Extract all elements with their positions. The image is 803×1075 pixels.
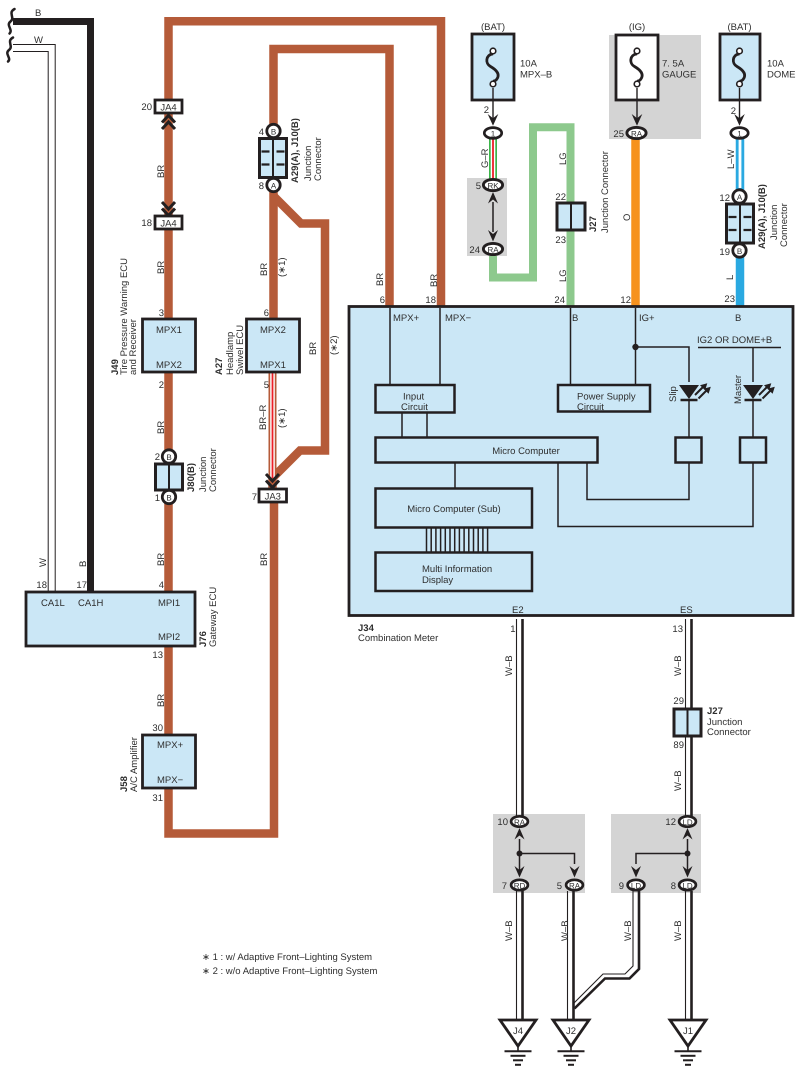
svg-text:JA3: JA3 [265,492,281,503]
svg-text:7: 7 [252,492,257,503]
junction connector A29 left: circle A pin 8 [267,178,280,191]
junction connector A29 right: circle B pin 19 [733,244,746,257]
arrow down into LD9 [631,866,641,878]
wire L: DOME circle1 down through A29 to J34 pin23 [736,139,745,309]
wire MPX- pin18 to Input Circuit [439,308,441,385]
arrow into RA25 [632,114,643,126]
svg-text:7: 7 [502,881,507,892]
ECU J76 Gateway box [26,592,195,646]
svg-text:8: 8 [259,181,264,192]
ECU J34 Combination Meter box [349,307,793,616]
ground J2 [553,1020,589,1065]
wire W-B: J34 ES pin13 down to J27 [685,619,687,712]
svg-text:W: W [38,558,49,567]
wire W squiggle end [7,38,13,62]
gray highlight box around IG fuse [609,35,701,139]
svg-text:Input: Input [403,392,424,403]
wire MPX+ pin6 to Input Circuit [389,308,391,385]
svg-text:Connector: Connector [313,137,324,181]
svg-text:12: 12 [620,295,631,306]
wire W white outlined trunk (top-left to J76 CA1L) [13,48,52,592]
wire W-B: LD9 down with jog joining J2 ground wire [574,891,634,1004]
svg-text:BR: BR [156,694,167,707]
wire B black trunk (top-left to J76 CA1H) [13,22,91,593]
svg-text:(BAT): (BAT) [481,22,505,33]
svg-text:2: 2 [484,105,489,116]
wire LD12 to LD8 [687,839,689,872]
connector circle LD pin 8 [679,880,696,890]
svg-text:Display: Display [422,575,453,586]
svg-text:W–B: W–B [673,655,684,676]
arrow down into RD7 [515,866,525,878]
svg-text:A29(A), J10(B): A29(A), J10(B) [290,118,301,183]
svg-text:10A: 10A [520,59,538,70]
svg-text:9: 9 [619,881,624,892]
svg-text:Micro Computer: Micro Computer [492,446,560,457]
wire BR-R (*1) A27 pin5 to JA3 [269,373,277,478]
svg-text:Multi Information: Multi Information [422,564,492,575]
svg-text:CA1L: CA1L [41,598,65,609]
connector circle 1 (MPX-B) [484,128,501,139]
box resistor below Slip LED [676,438,702,463]
wire G-R: fuse MPX-B circle1 down to RK [489,139,497,182]
svg-text:(IG): (IG) [629,22,645,33]
svg-text:Micro Computer (Sub): Micro Computer (Sub) [407,504,500,515]
bus hatch between Sub and Display [427,528,488,553]
wire fuse MPX-B to circle 1 [492,88,494,120]
svg-text:2: 2 [159,380,164,391]
junction connector A29(A) J10(B) right: grid box [727,204,754,243]
svg-text:13: 13 [152,650,163,661]
svg-text:10A: 10A [767,59,785,70]
wire W-B: RD7 down to ground J4 [516,891,518,1021]
svg-text:J1: J1 [683,1026,693,1037]
svg-text:IG2 OR DOME+B: IG2 OR DOME+B [697,335,772,346]
gray highlight box bottom-left RA/RD/RA group [493,814,585,893]
svg-text:10: 10 [497,817,508,828]
svg-text:24: 24 [469,245,480,256]
wire BR trunk: J34 pin18 up over top to left column down to J76 MPI1 [169,21,442,592]
wire fuse GAUGE to RA25 [636,88,638,120]
node junction dot [517,851,523,857]
svg-text:J27: J27 [588,216,599,232]
svg-text:31: 31 [152,793,163,804]
LED Slip [679,385,699,399]
wire IG2 OR DOME+B line to Master LED [698,348,781,383]
fuse 7.5A GAUGE [616,22,696,100]
connector circle RK pin 5 [483,179,502,190]
svg-text:MPI1: MPI1 [158,598,180,609]
svg-text:BR: BR [259,553,270,566]
svg-text:B: B [572,313,578,324]
svg-text:A29(A), J10(B): A29(A), J10(B) [757,184,768,249]
svg-text:Connector: Connector [208,448,219,492]
gray highlight box around RK/RA connectors [467,178,507,256]
svg-text:∗ 2 : w/o Adaptive Front–Light: ∗ 2 : w/o Adaptive Front–Lighting System [202,966,377,977]
junction connector J80(B): box [156,464,183,490]
svg-text:LD: LD [682,818,692,827]
svg-text:W–B: W–B [504,920,515,941]
box Power Supply Circuit [558,385,650,412]
svg-text:1: 1 [491,130,496,139]
svg-text:DOME: DOME [767,70,796,81]
connector circle RA pin 10 [511,816,528,826]
svg-text:(∗2): (∗2) [329,335,340,355]
ground J4 [500,1020,536,1065]
wire fuse DOME to circle 1 [739,88,741,120]
svg-text:MPX1: MPX1 [260,360,286,371]
svg-text:MPX+: MPX+ [393,313,420,324]
svg-text:22: 22 [555,192,566,203]
svg-text:MPX+: MPX+ [157,740,184,751]
svg-text:4: 4 [159,580,164,591]
svg-text:Circuit: Circuit [577,402,604,413]
arrow into circle 1 [488,114,499,126]
svg-text:17: 17 [76,580,87,591]
junction JA3 pin 7 [259,489,287,502]
svg-text:19: 19 [719,247,730,258]
svg-text:RD: RD [514,882,526,891]
svg-text:B: B [166,494,171,503]
svg-text:29: 29 [673,696,684,707]
junction connector J80(B): circle B pin 2 [162,450,175,463]
wire B pin24 to Power Supply Circuit [570,308,572,385]
svg-text:GAUGE: GAUGE [662,70,696,81]
arrow up into LD12 [683,828,693,840]
svg-text:30: 30 [152,723,163,734]
svg-text:L: L [725,275,736,280]
svg-text:RA: RA [631,130,643,139]
svg-text:BR–R: BR–R [258,405,269,430]
svg-text:BR: BR [156,165,167,178]
wire IG+ pin12 to Power Supply Circuit [635,308,637,385]
junction connector A29 left: grid box [260,139,287,178]
arrow up into RK [488,192,498,204]
svg-text:BR: BR [308,342,319,355]
wire Micro Computer to Slip resistor [587,463,689,500]
svg-text:BR: BR [156,553,167,566]
svg-text:B: B [35,8,41,19]
wire L-W white stripe segment [739,139,742,188]
junction connector A29(A) J10(B) left: circle B pin 4 [267,124,280,137]
wire dot to RA5 [520,854,575,865]
svg-text:18: 18 [141,218,152,229]
wire B squiggle end [9,9,15,34]
wire Micro Computer to Micro Computer (Sub) [454,463,456,490]
svg-text:25: 25 [613,129,624,140]
svg-text:23: 23 [724,294,735,305]
svg-text:LD: LD [631,882,641,891]
node junction dot [685,851,691,857]
svg-text:A: A [737,193,743,202]
svg-text:LG: LG [558,152,569,165]
svg-text:BR: BR [156,421,167,434]
connector circle RA pin 5 [566,880,583,890]
svg-text:RK: RK [487,182,499,191]
svg-text:B: B [737,247,742,256]
svg-text:Swivel ECU: Swivel ECU [235,325,246,375]
wire Master LED to resistor box [752,401,754,438]
wire Slip LED to resistor box [688,401,690,438]
svg-text:IG+: IG+ [639,313,655,324]
svg-text:(BAT): (BAT) [727,22,751,33]
connector circle RA pin 25 [627,127,646,138]
arrow into circle 1 [734,114,745,126]
svg-text:Connector: Connector [779,203,790,247]
svg-text:13: 13 [672,624,683,635]
svg-text:(∗1): (∗1) [277,408,288,428]
wire W-B: J34 E2 pin1 down to RA10 [516,619,518,816]
fuse 10A DOME [720,22,796,100]
wire RK to RA [492,202,494,232]
svg-text:20: 20 [141,102,152,113]
svg-text:23: 23 [555,235,566,246]
svg-text:12: 12 [719,193,730,204]
svg-text:J2: J2 [566,1026,576,1037]
junction connector A29(A) J10(B) right: circle A pin 12 [733,190,746,203]
svg-text:W–B: W–B [673,770,684,791]
arrow down into RA5 [570,866,580,878]
svg-text:89: 89 [673,740,684,751]
arrow down into LD8 [683,866,693,878]
ECU J58 A/C Amplifier box [143,735,196,788]
svg-text:J4: J4 [513,1026,523,1037]
svg-text:B: B [78,561,89,567]
svg-text:ES: ES [680,605,693,616]
junction JA4 pin 18 [155,216,182,229]
svg-text:5: 5 [476,181,481,192]
svg-text:W: W [34,35,43,46]
svg-text:and Receiver: and Receiver [128,319,139,375]
svg-text:8: 8 [671,881,676,892]
svg-text:LG: LG [558,269,569,282]
svg-text:O: O [622,214,633,221]
svg-text:MPX1: MPX1 [156,325,182,336]
svg-text:W–B: W–B [504,655,515,676]
LED Master [743,385,763,399]
svg-text:G–R: G–R [480,148,491,168]
svg-text:1: 1 [737,130,742,139]
svg-text:12: 12 [665,817,676,828]
wire BR: J34 pin6 up over to A29 connector down to A27 pin6 [274,49,390,320]
svg-text:Connector: Connector [707,727,751,738]
svg-text:JA4: JA4 [160,219,176,230]
svg-text:5: 5 [264,380,269,391]
svg-text:BR: BR [429,274,440,287]
box Micro Computer [376,438,598,463]
svg-text:24: 24 [554,295,565,306]
svg-text:Master: Master [733,375,744,404]
svg-text:3: 3 [159,308,164,319]
svg-text:MPX2: MPX2 [156,360,182,371]
svg-text:MPX−: MPX− [157,775,184,786]
chevron arrows down above JA3 [266,474,279,488]
svg-text:W–B: W–B [673,920,684,941]
svg-text:J80(B): J80(B) [186,463,197,492]
svg-text:MPX−: MPX− [445,313,472,324]
svg-text:2: 2 [155,452,160,463]
svg-text:1: 1 [155,493,160,504]
chevron arrows up below JA4 20 [162,116,175,130]
connector circle RA pin 24 [483,243,502,254]
svg-text:RA: RA [487,246,499,255]
svg-text:E2: E2 [512,605,524,616]
svg-text:1: 1 [510,624,515,635]
svg-text:MPX2: MPX2 [260,325,286,336]
connector circle 1 (DOME) [731,128,748,139]
svg-text:B: B [735,313,741,324]
svg-text:Slip: Slip [668,386,679,402]
wire W-B: LD8 down to ground J1 [685,891,687,1021]
svg-text:B: B [271,128,276,137]
svg-text:(∗1): (∗1) [277,257,288,277]
svg-text:JA4: JA4 [160,103,176,114]
wire Micro Computer to Master resistor [558,463,753,527]
svg-text:4: 4 [259,127,264,138]
svg-text:Gateway ECU: Gateway ECU [208,587,219,647]
box Multi Information Display [376,553,533,592]
svg-text:A: A [271,182,277,191]
svg-text:MPI2: MPI2 [158,632,180,643]
arrow down into RA [488,230,498,242]
svg-text:RA: RA [569,882,581,891]
svg-text:18: 18 [425,295,436,306]
svg-text:MPX–B: MPX–B [520,70,552,81]
svg-text:A/C Amplifier: A/C Amplifier [129,737,140,792]
svg-text:BR: BR [375,273,386,286]
wire BR (*2) bypass branch around A27 [273,196,326,489]
box Input Circuit [376,385,455,413]
connector circle RD pin 7 [511,880,528,890]
svg-text:BR: BR [259,263,270,276]
wire dot to LD9 [636,854,688,865]
svg-text:∗ 1 : w/ Adaptive Front–Lighti: ∗ 1 : w/ Adaptive Front–Lighting System [202,952,372,963]
wire W-B: RA5 down to ground J2 [567,891,569,1021]
wire dot to Slip LED [636,347,690,382]
svg-text:7. 5A: 7. 5A [662,59,685,70]
wire RA10 to RD7 [519,839,521,872]
svg-text:CA1H: CA1H [78,598,103,609]
ground J1 [670,1020,706,1065]
svg-text:6: 6 [380,295,385,306]
arrow up into RA10 [515,828,525,840]
box resistor below Master LED [740,438,766,463]
wire LG loop: RA24 down right and up over to J27 and J34 pin24 [493,127,571,309]
junction connector J80(B): circle B pin 1 [162,490,175,503]
connector circle LD pin 9 [628,880,645,890]
svg-text:6: 6 [264,308,269,319]
svg-text:BR: BR [156,261,167,274]
fuse 10A MPX-B [472,22,552,100]
junction JA4 pin 20 [155,100,182,113]
svg-text:18: 18 [36,580,47,591]
svg-text:Junction Connector: Junction Connector [600,151,611,233]
svg-text:W–B: W–B [560,920,571,941]
svg-text:A27: A27 [214,358,225,375]
svg-text:W–B: W–B [623,920,634,941]
wire O: RA25 down to J34 pin12 [631,139,640,309]
gray highlight box bottom-right LD group [611,814,701,893]
svg-text:5: 5 [557,881,562,892]
box Micro Computer (Sub) [376,489,533,528]
svg-text:RA: RA [514,818,526,827]
wire W-B: J27 pin89 down to LD12 [685,734,687,816]
svg-text:L–W: L–W [726,149,737,169]
svg-text:Power Supply: Power Supply [577,392,636,403]
wire Input Circuit to Micro Computer (two lines) [402,413,427,439]
svg-text:B: B [166,453,171,462]
svg-text:Circuit: Circuit [401,402,428,413]
wire BR: J76 MPI2 down through J58 to bottom U up to JA3 [169,502,275,834]
connector circle LD pin 12 [679,816,696,826]
node junction dot on IG+ [632,344,638,350]
chevron arrows down above JA4 18 [162,202,175,216]
svg-text:LD: LD [682,882,692,891]
svg-text:Combination Meter: Combination Meter [358,633,438,644]
svg-text:J27: J27 [707,706,723,717]
